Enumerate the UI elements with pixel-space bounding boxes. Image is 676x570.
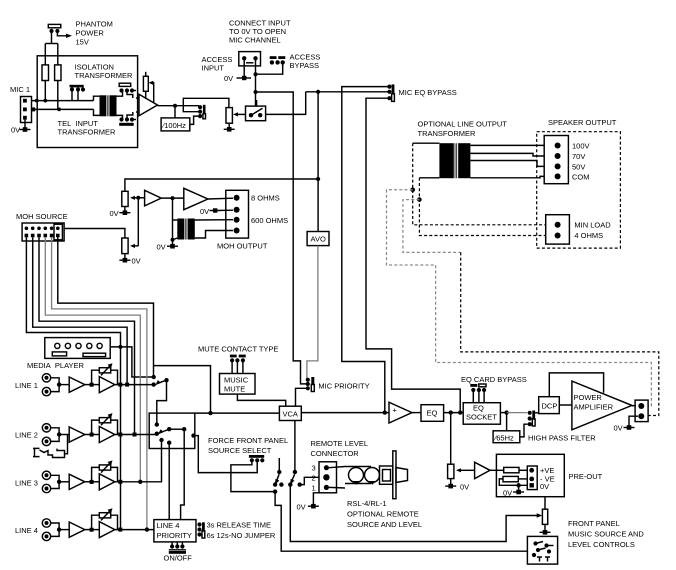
op-amp preout driver <box>475 462 490 478</box>
junction line1 in <box>57 382 61 386</box>
svg-text:0V: 0V <box>11 126 20 135</box>
wire moh xfmr ground <box>172 240 174 246</box>
wire amp out <box>632 405 636 407</box>
wire MOH source out <box>64 229 125 239</box>
ground moh pin2 <box>210 208 218 212</box>
wire COM <box>470 176 544 177</box>
junction dots on mic wires <box>35 99 39 103</box>
junction matrix out <box>182 427 186 431</box>
svg-text:4 OHMS: 4 OHMS <box>574 231 603 240</box>
wire MIC hot <box>32 100 94 102</box>
wire bus col3 <box>39 237 135 434</box>
op-amp line3 gain <box>99 474 115 490</box>
svg-text:TRANSFORMER: TRANSFORMER <box>75 71 134 80</box>
box TEL INPUT TRANSFORMER <box>37 56 137 148</box>
svg-text:INPUT: INPUT <box>202 64 225 73</box>
wire AVO down gray <box>306 246 318 379</box>
svg-text:REMOTE LEVEL: REMOTE LEVEL <box>311 439 369 448</box>
svg-text:MIC 1: MIC 1 <box>10 85 30 94</box>
svg-text:OPTIONAL LINE OUTPUT: OPTIONAL LINE OUTPUT <box>418 120 508 129</box>
wire MOH lower wiper <box>133 245 138 247</box>
wire moh xfmr sec bottom to pin <box>195 231 233 239</box>
connector MIC1 <box>21 97 32 123</box>
dashed speaker box <box>537 132 621 248</box>
svg-text:CONNECTOR: CONNECTOR <box>311 449 360 458</box>
jumper 100Hz <box>198 105 206 119</box>
resistor phantom A <box>42 65 49 81</box>
wire dcp to amp <box>559 404 572 406</box>
junction access signal <box>254 90 258 94</box>
bus vca feed wire <box>195 412 280 414</box>
wire matrix common to out <box>169 428 184 430</box>
op-amp MOH buffer1 <box>145 190 162 206</box>
wire opamp output <box>158 105 200 107</box>
arrowhead phantom <box>66 34 72 38</box>
wire pot ground <box>450 479 452 486</box>
plug remote body <box>380 451 408 499</box>
arrowhead pot wiper <box>233 112 238 116</box>
resistor preout +ve <box>504 467 519 472</box>
jumper high pass filter <box>528 411 535 427</box>
op-amp MOH power <box>184 188 208 209</box>
wire line4 out <box>115 529 154 531</box>
svg-text:70V: 70V <box>572 152 585 161</box>
box AVO <box>307 232 329 246</box>
wire line3 jacks join <box>51 475 59 488</box>
svg-text:6s 12s-NO JUMPER: 6s 12s-NO JUMPER <box>207 531 276 540</box>
svg-text:HIGH PASS FILTER: HIGH PASS FILTER <box>528 434 596 443</box>
svg-text:15V: 15V <box>76 38 89 47</box>
wire line4 interstage <box>85 529 100 531</box>
junction dashed com <box>417 197 422 202</box>
jumper mic input link <box>70 85 86 101</box>
wire signal rail to mic eq bypass pin2 <box>306 91 389 93</box>
jumper mute contact <box>230 355 246 374</box>
wire matrix exit to force jumper <box>194 436 258 473</box>
jumper release time <box>197 522 204 538</box>
wire line2 out <box>115 434 157 436</box>
resistor phantom B <box>55 65 61 81</box>
box 100Hz <box>161 118 190 131</box>
wire summing to eq <box>412 412 421 414</box>
junction dashed hot <box>410 188 415 193</box>
svg-text:DCP: DCP <box>542 402 558 411</box>
wire preamp to res1 <box>490 469 504 471</box>
svg-text:POWER: POWER <box>574 393 603 402</box>
svg-text:VCA: VCA <box>283 410 298 419</box>
wire switch A to front panel music <box>275 492 527 552</box>
wire eq bypass pin1 <box>342 87 389 413</box>
svg-text:ON/OFF: ON/OFF <box>164 554 193 563</box>
wire moh amp out to 8ohm pin <box>208 197 233 200</box>
box EQ <box>421 405 444 422</box>
wire phantom arrow <box>57 33 66 36</box>
dashed gray wire com link <box>403 200 461 253</box>
svg-text:LINE 1: LINE 1 <box>15 381 38 390</box>
svg-text:0V: 0V <box>157 243 166 252</box>
svg-text:RSL-4/RL-1: RSL-4/RL-1 <box>347 499 387 508</box>
svg-text:PRIORITY: PRIORITY <box>157 531 192 540</box>
wire switch top to access junction <box>256 100 258 106</box>
svg-text:2: 2 <box>312 474 316 483</box>
wire eq to socket <box>444 412 464 414</box>
svg-text:MIN LOAD: MIN LOAD <box>574 221 611 230</box>
wire buffer1 out <box>161 197 184 199</box>
svg-text:OPTIONAL REMOTE: OPTIONAL REMOTE <box>347 510 419 519</box>
wire moh 0V to pin2 <box>217 209 234 211</box>
junction moh primary bottom <box>171 238 175 242</box>
wire wiper rail <box>137 198 139 246</box>
junction line4 out bus <box>118 528 122 532</box>
ground moh xfmr <box>167 244 178 249</box>
transformer TEL input core <box>100 95 117 116</box>
svg-text:LINE 3: LINE 3 <box>15 479 38 488</box>
svg-text:MOH OUTPUT: MOH OUTPUT <box>217 242 268 251</box>
wire 100Hz mid pin zig <box>183 106 198 112</box>
switch line2 select <box>155 422 172 436</box>
arrowhead MOH upper wiper <box>130 196 135 200</box>
svg-text:MIC CHANNEL: MIC CHANNEL <box>229 36 281 45</box>
wire access bypass to 0V rail <box>256 62 283 74</box>
wire moh xfmr primary bottom <box>173 238 178 240</box>
wire buffer1 in <box>138 197 144 199</box>
svg-text:FRONT PANEL: FRONT PANEL <box>568 519 620 528</box>
transformer MOH 600ohm <box>177 219 195 240</box>
svg-text:TRANSFORMER: TRANSFORMER <box>418 129 477 138</box>
op-amp line2 buffer <box>69 427 85 442</box>
wire 70V <box>470 153 544 156</box>
junction moh wiper rail <box>136 196 140 200</box>
wire vca out <box>301 412 389 414</box>
wire switch B to front level <box>290 485 538 542</box>
op-amp line4 buffer <box>69 522 85 537</box>
junction moh amp node <box>171 196 175 200</box>
resistor front level pot <box>542 509 547 524</box>
wire MOH upper ground <box>124 206 126 212</box>
wire remote 0V <box>313 493 319 506</box>
svg-text:EQ: EQ <box>473 404 484 413</box>
jumper mic secondary top <box>119 83 136 98</box>
junction line4 in <box>57 527 61 531</box>
svg-text:LINE 4: LINE 4 <box>157 521 180 530</box>
svg-text:SOURCE SELECT: SOURCE SELECT <box>208 446 272 455</box>
wire vca down to switch <box>294 421 296 473</box>
svg-text:0V: 0V <box>110 209 119 218</box>
wire access pin2 down <box>255 58 257 106</box>
junction line2 in <box>57 432 61 436</box>
svg-text:MUTE: MUTE <box>224 385 245 394</box>
op-amp line1 buffer <box>69 377 85 392</box>
wire eq out drop to pot <box>450 413 452 465</box>
junction opamp out <box>173 104 177 108</box>
op-amp power amplifier <box>572 381 632 430</box>
connector access input <box>239 52 261 66</box>
wire moh xfmr sec top to pin <box>195 219 233 221</box>
wire 50V <box>470 161 544 167</box>
wire transformer secondary yokes <box>117 91 123 97</box>
wire bus col2 <box>33 237 127 384</box>
wire music mute to vca <box>237 394 285 406</box>
wire pot wiper <box>236 113 246 115</box>
wire 100Hz branch down <box>174 106 176 118</box>
svg-text:3: 3 <box>312 464 316 473</box>
jumper force select <box>249 455 265 462</box>
svg-text:SOURCE AND LEVEL: SOURCE AND LEVEL <box>347 520 422 529</box>
junction eq out drop <box>449 410 453 414</box>
resistor MOH level lower <box>122 238 128 254</box>
wire resistor A leads <box>44 81 46 101</box>
wire access junction right <box>256 92 294 114</box>
svg-text:BYPASS: BYPASS <box>290 61 319 70</box>
junction line3 out bus <box>118 480 122 484</box>
svg-text:COM: COM <box>572 173 590 182</box>
dashed wire amp com to xfmr and min load <box>419 178 545 236</box>
svg-text:EQ CARD BYPASS: EQ CARD BYPASS <box>461 375 527 384</box>
arrowhead MOH lower wiper <box>130 244 135 248</box>
box 65Hz <box>493 431 520 443</box>
wire dcp feedback <box>549 373 603 397</box>
connector MOH output <box>226 190 249 238</box>
arrowhead pot wiper preout <box>456 468 461 472</box>
switch mute mic <box>246 106 266 121</box>
wire 65Hz drop <box>506 413 508 431</box>
op-amp line1 gain <box>99 377 115 393</box>
wire access pin1 to ground <box>243 58 245 78</box>
wire media out <box>110 347 154 377</box>
resistor remote level pot <box>448 464 454 478</box>
junction matrix exit <box>191 433 195 437</box>
svg-text:MEDIA PLAYER: MEDIA PLAYER <box>27 361 85 370</box>
svg-text:AVO: AVO <box>311 235 326 244</box>
jumper MIC PRIORITY <box>306 377 315 392</box>
svg-text:0V: 0V <box>503 489 512 498</box>
junction line3 fb <box>90 480 94 484</box>
svg-text:EQ: EQ <box>427 409 438 418</box>
wire line1 out <box>115 384 154 386</box>
junction media/bus1 <box>119 345 123 349</box>
wire resistor B leads <box>57 81 59 110</box>
connector line3 jacks <box>42 471 50 493</box>
connector amp output <box>635 400 648 422</box>
jumper eq card bypass <box>470 384 486 403</box>
connector MOH source <box>22 223 64 241</box>
switch line1 select <box>152 375 169 387</box>
wire xfmr primary bottom <box>419 177 439 179</box>
wire remote pins to cable <box>329 467 345 468</box>
junction line2 out bus <box>118 433 122 437</box>
wire line3 interstage <box>85 481 100 483</box>
svg-text:MOH SOURCE: MOH SOURCE <box>16 212 68 221</box>
wire matrix 184 to priority box <box>181 449 185 520</box>
wire amp out pin2 ground <box>629 416 638 427</box>
svg-text:MUSIC: MUSIC <box>224 376 249 385</box>
jumper phantom power <box>48 24 61 33</box>
op-amp line4 gain <box>99 522 115 538</box>
connector min load <box>546 215 570 244</box>
wire line4 jacks join <box>51 523 59 536</box>
wire 65Hz to jumper <box>520 424 528 437</box>
svg-text:MIC PRIORITY: MIC PRIORITY <box>318 382 369 391</box>
svg-text:LEVEL CONTROLS: LEVEL CONTROLS <box>568 540 635 549</box>
wire line2 interstage <box>85 434 100 436</box>
svg-text:POWER: POWER <box>76 29 105 38</box>
wire matrix internal drops <box>161 440 163 449</box>
junction socket out <box>504 410 508 414</box>
wire line3 out <box>115 449 162 482</box>
jumper priority on/off <box>169 542 186 554</box>
svg-text:0V: 0V <box>540 482 549 491</box>
wire phantom join <box>45 43 58 45</box>
dashed gray wire hot to amp out <box>387 190 652 406</box>
wire MOH pot lower ground <box>124 254 126 260</box>
box media player <box>45 338 110 359</box>
connector line1 jacks <box>42 374 50 396</box>
wire res1 to pin <box>519 469 527 471</box>
op-amp line2 gain <box>99 427 115 443</box>
dashed black wire com to amp out <box>461 252 659 415</box>
connector line2 jacks <box>42 424 50 446</box>
wire bus col4 gray <box>45 237 140 481</box>
junction line1 out bus <box>118 383 122 387</box>
resistor line4 pot <box>92 508 118 529</box>
wire line1 common chain down <box>157 380 167 424</box>
junction line3 in <box>57 480 61 484</box>
wire line2 to buffer <box>59 434 69 436</box>
wire line2 jacks join <box>51 428 59 442</box>
switch priority A <box>273 458 284 487</box>
svg-text:TRANSFORMER: TRANSFORMER <box>58 128 117 137</box>
wire res2 to pin <box>518 478 527 480</box>
connector line2 minijack <box>33 448 65 457</box>
cable remote curls <box>345 467 380 485</box>
box EQ SOCKET <box>463 403 500 425</box>
svg-text:PRE-OUT: PRE-OUT <box>569 472 603 481</box>
wire moh xfmr primary top <box>173 219 178 221</box>
svg-text:FORCE FRONT PANEL: FORCE FRONT PANEL <box>208 436 288 445</box>
resistor line1 pot <box>92 363 118 384</box>
box front panel controls <box>527 536 557 564</box>
svg-text:⁄65Hz: ⁄65Hz <box>493 434 514 443</box>
op-amp mic U1 <box>139 94 158 115</box>
box DCP <box>539 397 560 414</box>
wire preout gnd stub <box>518 485 520 491</box>
jumper MIC EQ BYPASS <box>387 84 394 101</box>
ground MOH lower <box>119 258 130 263</box>
junction eq bypass join <box>458 410 462 414</box>
wire MIC1 pin3 to ground <box>24 119 26 129</box>
wire force select left branch <box>231 460 275 491</box>
switch priority B <box>288 470 302 487</box>
jumper mic secondary bottom <box>119 112 136 126</box>
svg-text:AMPLIFIER: AMPLIFIER <box>574 403 614 412</box>
wire access-mute rail down <box>293 114 306 384</box>
wire bus col6 gray <box>58 237 154 377</box>
svg-text:0V: 0V <box>224 74 233 83</box>
ground MIC1 <box>20 127 31 132</box>
svg-text:SPEAKER OUTPUT: SPEAKER OUTPUT <box>548 118 617 127</box>
ground remote <box>308 504 319 509</box>
ground amp out <box>624 425 635 430</box>
svg-text:MUTE CONTACT TYPE: MUTE CONTACT TYPE <box>198 345 278 354</box>
junction preout 0V <box>516 483 520 487</box>
svg-text:100V: 100V <box>572 142 590 151</box>
box line4 priority <box>154 520 196 542</box>
dashed wire amp hot to xfmr and min load <box>413 143 546 225</box>
connector speaker output <box>544 136 568 184</box>
svg-text:8 OHMS: 8 OHMS <box>251 194 280 203</box>
wire 100V <box>470 144 544 146</box>
svg-text:1: 1 <box>312 484 316 493</box>
arrowhead front level <box>537 513 543 517</box>
resistor MOH upper <box>122 191 128 206</box>
wire bus col5 gray <box>52 237 147 529</box>
ground front pot <box>540 530 551 535</box>
svg-text:PHANTOM: PHANTOM <box>76 20 113 29</box>
svg-text:0V: 0V <box>200 207 209 216</box>
wire line1 sel up and over to vca bus <box>154 366 211 414</box>
wire 100Hz box to jumper <box>190 116 198 124</box>
wire opamp inputs <box>136 97 139 99</box>
wire front pot top <box>544 497 546 510</box>
box VCA <box>279 406 301 420</box>
svg-text:LINE 4: LINE 4 <box>15 526 38 535</box>
box pre-out <box>496 454 564 496</box>
svg-text:⁄100Hz: ⁄100Hz <box>161 121 186 130</box>
svg-text:600 OHMS: 600 OHMS <box>251 216 288 225</box>
svg-text:LINE 2: LINE 2 <box>15 431 38 440</box>
wire moh transformer primary feed <box>172 198 174 240</box>
junction vca bus <box>208 411 212 415</box>
wire AVO rail <box>317 92 319 232</box>
junction line4 fb <box>90 528 94 532</box>
svg-text:3s RELEASE TIME: 3s RELEASE TIME <box>207 521 271 530</box>
ground mic pot <box>224 127 235 132</box>
wire front pot ground <box>544 524 546 531</box>
wire line4 to buffer <box>59 529 69 531</box>
resistor mic level pot <box>226 108 232 129</box>
svg-text:0V: 0V <box>132 257 141 266</box>
wire line3 to buffer <box>59 481 69 483</box>
wire switch B right contact to remote <box>300 477 319 484</box>
wire line1 interstage <box>85 384 100 386</box>
wire bus col1 <box>26 237 120 529</box>
wire to pot via top <box>183 98 229 107</box>
junction MOH feed <box>316 177 320 181</box>
junction access 0V rail <box>254 72 258 76</box>
junction AVO tap <box>316 90 320 94</box>
wire pot wiper to preamp <box>459 469 475 471</box>
ground remote pot <box>445 484 456 489</box>
box MUSIC MUTE <box>220 374 256 395</box>
box source switch matrix <box>149 413 195 448</box>
ground MOH upper <box>119 210 130 215</box>
wire line1 jacks join <box>51 378 59 392</box>
wire MOH upper wiper <box>133 197 138 199</box>
resistor mic gain <box>143 72 153 104</box>
junction line1 fb <box>90 383 94 387</box>
svg-text:+: + <box>393 406 398 415</box>
connector remote level <box>319 462 337 493</box>
ground access <box>237 76 252 80</box>
wire line2 minijack link <box>65 435 68 454</box>
junction switch A lower <box>273 489 277 493</box>
svg-text:0V: 0V <box>297 503 306 512</box>
wire res2 left loop <box>499 479 527 485</box>
wire socket to hpf gray <box>507 412 527 414</box>
svg-text:50V: 50V <box>572 162 585 171</box>
wire socket out <box>500 412 506 414</box>
op-amp line3 buffer <box>69 474 85 489</box>
